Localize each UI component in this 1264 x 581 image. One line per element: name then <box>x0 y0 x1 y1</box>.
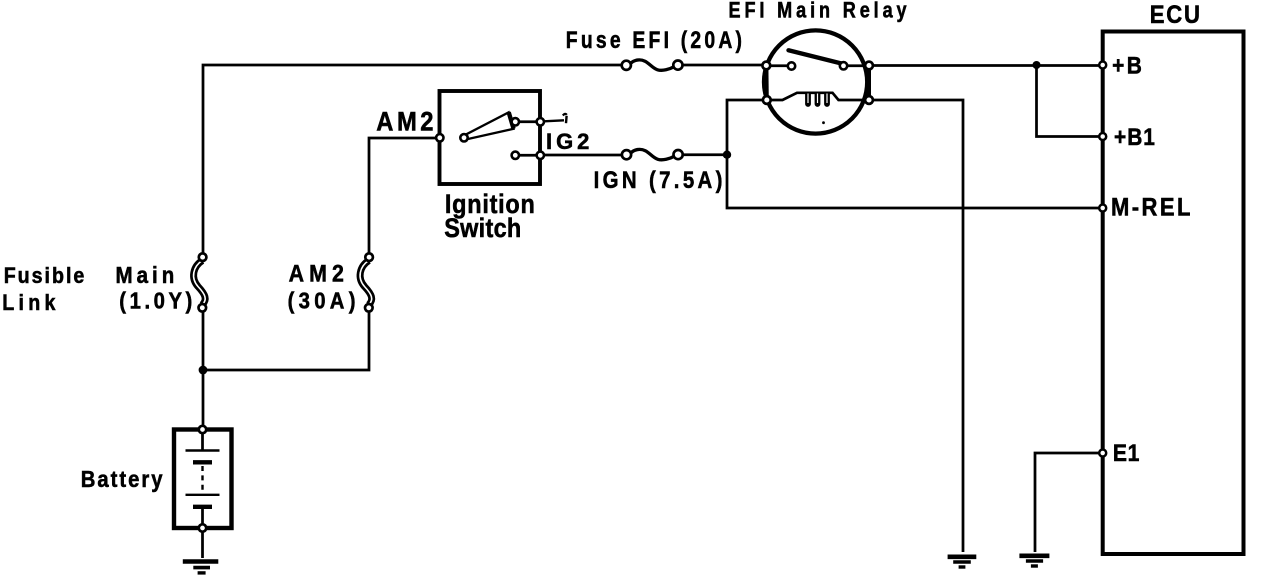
terminal IG2 of switch <box>537 152 544 159</box>
relay left chord <box>764 66 768 101</box>
relay terminal bottom right <box>865 96 873 104</box>
terminal +B1 <box>1099 133 1106 140</box>
ignition switch box <box>440 91 541 184</box>
svg-text:+B: +B <box>1112 52 1144 79</box>
ECU box <box>1103 32 1244 555</box>
svg-text:(30A): (30A) <box>288 287 360 314</box>
wire junction to battery <box>202 370 205 428</box>
svg-text:Fusible: Fusible <box>4 264 87 288</box>
wire main link to battery junction <box>202 311 205 370</box>
terminal +B <box>1099 62 1106 69</box>
relay terminal top right <box>865 62 873 70</box>
terminal E1 <box>1099 450 1106 457</box>
wire junction to AM2 link <box>203 311 369 370</box>
svg-text:+B1: +B1 <box>1114 124 1156 151</box>
fusible link Main (1.0Y) <box>194 253 207 311</box>
relay switch inner contacts <box>770 62 866 70</box>
node junction +B branch <box>1033 61 1041 69</box>
svg-text:Battery: Battery <box>81 466 165 493</box>
wire relay coil to ground run <box>873 100 963 552</box>
relay speck <box>822 121 825 124</box>
node battery junction <box>199 366 208 375</box>
ignition switch wedge contact arm <box>466 112 513 139</box>
wire +B1 branch <box>1037 65 1100 137</box>
ignition switch upper contact <box>512 118 519 125</box>
relay coil <box>770 93 866 107</box>
stub open terminal with hook <box>544 114 567 123</box>
wire upper contact to box edge <box>519 120 537 123</box>
svg-text:(1.0Y): (1.0Y) <box>119 287 196 314</box>
wire fuse IGN to junction <box>681 153 727 156</box>
wire E1 to ground <box>1035 453 1099 552</box>
wire relay coil feed <box>727 100 763 155</box>
svg-text:IGN (7.5A): IGN (7.5A) <box>594 166 726 193</box>
wire IG2 contact to box edge <box>519 154 537 157</box>
relay terminal top left <box>762 62 770 70</box>
svg-text:AM2: AM2 <box>289 259 349 287</box>
terminal M-REL <box>1099 205 1106 212</box>
ignition switch pivot contact <box>460 134 467 141</box>
battery <box>174 426 232 558</box>
wire fuse EFI to relay <box>682 64 763 67</box>
wire top bus left segment <box>203 65 622 254</box>
wire AM2 link to ignition switch <box>369 138 437 254</box>
fuse IGN (7.5A) <box>622 149 683 159</box>
relay EFI Main Relay circle <box>764 30 867 133</box>
fuse Fuse EFI (20A) <box>622 60 683 70</box>
ground E1 <box>1019 556 1049 566</box>
node IGN junction <box>723 151 731 159</box>
svg-text:Fuse EFI (20A): Fuse EFI (20A) <box>566 26 745 53</box>
ground relay coil <box>948 557 977 567</box>
svg-text:AM2: AM2 <box>376 107 437 136</box>
relay switch blade <box>789 50 845 64</box>
svg-text:ECU: ECU <box>1150 2 1202 30</box>
terminal upper right of switch <box>537 118 544 125</box>
svg-text:IG2: IG2 <box>546 129 593 154</box>
svg-text:Switch: Switch <box>444 214 521 244</box>
ignition switch IG2 inner contact <box>512 152 519 159</box>
relay terminal bottom left <box>763 96 771 104</box>
terminal AM2 of switch <box>436 134 443 141</box>
wire junction to M-REL <box>727 155 1100 208</box>
svg-text:E1: E1 <box>1113 440 1140 467</box>
fusible link AM2 (30A) <box>360 253 373 311</box>
wire IG2 to fuse IGN <box>544 154 622 157</box>
relay right chord <box>867 66 871 101</box>
ground battery <box>183 562 219 573</box>
wire relay to ECU +B <box>873 64 1100 67</box>
svg-text:M-REL: M-REL <box>1111 193 1193 221</box>
svg-text:Link: Link <box>2 291 60 315</box>
svg-text:Main: Main <box>116 262 179 289</box>
svg-text:EFI Main Relay: EFI Main Relay <box>729 0 911 23</box>
